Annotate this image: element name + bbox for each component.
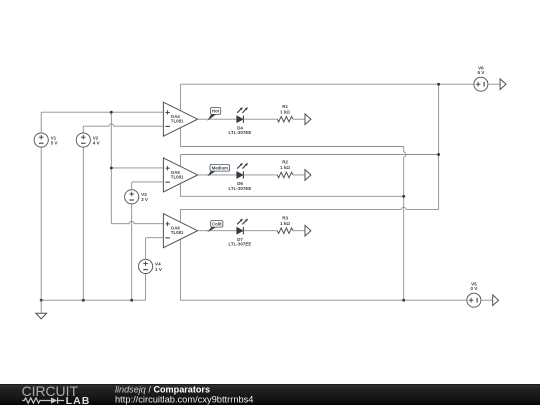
op-amp OA6 TL081 [163,214,197,248]
wire: ground stem [40,300,42,313]
svg-text:LTL-307EE: LTL-307EE [228,242,251,247]
node: junction top rail / V+ feed [437,83,440,86]
wire: V4 top to OA6 - input [146,238,164,260]
svg-text:4 V: 4 V [93,140,101,145]
svg-text:LTL-307EE: LTL-307EE [228,186,251,191]
wire: V2 top to OA4 - input (hops over bus) [83,124,163,133]
voltage source V1 5 V [34,133,58,147]
svg-text:0 V: 0 V [470,286,478,291]
svg-text:TL081: TL081 [171,174,184,179]
svg-text:TL081: TL081 [171,119,184,124]
svg-text:R3: R3 [282,215,288,220]
svg-text:http://circuitlab.com/cxy9bttr: http://circuitlab.com/cxy9bttrrnbs4 [115,394,253,404]
svg-text:1 kΩ: 1 kΩ [280,109,290,114]
svg-text:R2: R2 [282,160,288,165]
wire: V1 bottom to ground bus [40,147,42,300]
ground (row R2) [305,170,311,181]
wire: V3 top to OA5 - input [132,182,164,190]
LED D7 LTL-307EE [228,219,251,247]
wire: OA5 V- rail [180,184,403,197]
resistor R2 1 kOhm [277,160,293,178]
wire: V- feed vertical x=403.7 (with hop over OA5 V+ rail) [404,147,406,301]
wire: sense bus x=111.3 to OA6 + input (hops over V3) [111,112,163,224]
svg-text:5 V: 5 V [51,140,59,145]
wire: OA4 V- rail [180,128,403,147]
op-amp OA5 TL081 [163,158,197,192]
wire: V+ feed vertical x=438.6 [438,84,440,209]
node: junction V1 wire / sense bus [110,111,113,114]
wire: resistor R1 to ground [293,118,305,120]
LED D6 LTL-307EE [228,163,251,191]
voltage source V6 5 V [474,65,488,91]
wire: V2 bottom to ground bus [82,147,84,300]
wire: V5 to ground [481,299,493,301]
voltage source V4 1 V [139,259,163,273]
node: junction bottom rail / V- feed [402,299,405,302]
wire: V6 to ground [488,83,500,85]
wire: LED D6 to resistor R2 [243,174,277,176]
svg-text:Medium: Medium [212,165,228,170]
wire: V3 bottom to ground bus [131,204,133,300]
voltage source V5 0 V [467,281,481,307]
wire: sense bus to OA5 + input [111,167,163,169]
wire: OA5 V+ rail [180,155,438,167]
ground (row R3) [305,225,311,236]
svg-text:R1: R1 [282,104,288,109]
node: junction OA5 V- rail / V- feed [402,195,405,198]
wire: resistor R2 to ground [293,174,305,176]
svg-text:1 kΩ: 1 kΩ [280,165,290,170]
svg-text:3 V: 3 V [141,197,149,202]
wire: OA5 output to LED D6 [198,174,237,176]
wire: OA4 output to LED D4 [198,118,237,120]
wire: top V+ rail y=84.2 [180,84,473,110]
wire: resistor R3 to ground [293,230,305,232]
wire: LED D4 to resistor R1 [243,118,277,120]
ground (V5) [493,295,499,306]
wire: LED D7 to resistor R3 [243,230,277,232]
LED D4 LTL-307EE [228,107,251,135]
wire: V4 bottom to ground bus [145,274,147,301]
flag label Hot [207,108,221,121]
wire: OA6 output to LED D7 [198,230,237,232]
resistor R3 1 kOhm [277,215,293,233]
wire: OA6 V- down + bottom rail y=300.2 [180,239,467,300]
ground (left bus) [36,313,47,319]
wire: V1 top to OA4 + input [41,112,163,133]
svg-text:TL081: TL081 [171,230,184,235]
voltage source V3 3 V [125,190,149,204]
ground (row R1) [305,114,311,125]
node: junction V1 / ground bus [40,299,43,302]
flag label Cold [207,220,223,232]
wire: OA6 V+ rail (hops over V- feed) [180,207,438,222]
svg-text:Hot: Hot [212,109,220,114]
node: junction OA5 V+ rail / V+ feed [437,153,440,156]
resistor R1 1 kOhm [277,104,293,122]
svg-text:LAB: LAB [66,395,91,405]
node: junction sense bus / OA5 + input [110,167,113,170]
node: junction V3 / ground bus [130,299,133,302]
CircuitLab logo [22,383,91,405]
svg-text:1 V: 1 V [155,267,163,272]
svg-text:1 kΩ: 1 kΩ [280,221,290,226]
svg-text:Cold: Cold [212,221,222,226]
node: junction V2 / ground bus [82,299,85,302]
voltage source V2 4 V [76,133,100,147]
op-amp OA4 TL081 [163,102,197,136]
svg-text:lindsejq / Comparators: lindsejq / Comparators [115,385,210,395]
svg-text:5 V: 5 V [477,70,485,75]
ground (V6) [500,79,506,90]
svg-text:LTL-307EE: LTL-307EE [228,130,251,135]
footer caption text [115,385,253,405]
wire: left ground bus y=300.2 [41,299,145,301]
footer bar [0,384,540,405]
flag label Medium [207,164,229,176]
